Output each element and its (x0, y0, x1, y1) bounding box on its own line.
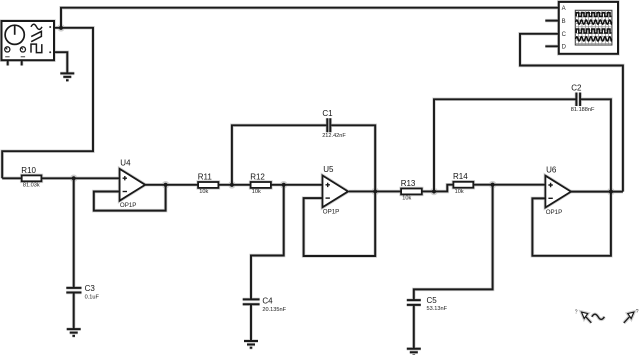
svg-text:C2: C2 (571, 84, 582, 93)
svg-text:53.13nF: 53.13nF (427, 306, 448, 312)
svg-text:?: ? (636, 309, 639, 315)
svg-text:U4: U4 (120, 159, 131, 168)
svg-text:0.1uF: 0.1uF (85, 294, 100, 300)
svg-text:C: C (562, 32, 567, 38)
svg-text:10k: 10k (402, 196, 411, 202)
svg-text:C4: C4 (262, 296, 273, 305)
svg-text:10k: 10k (252, 189, 261, 195)
svg-text:212.42nF: 212.42nF (322, 133, 346, 139)
svg-text:C1: C1 (322, 109, 333, 118)
svg-text:10k: 10k (199, 189, 208, 195)
svg-text:U6: U6 (546, 165, 557, 174)
svg-text:C3: C3 (85, 284, 96, 293)
svg-text:A: A (562, 6, 566, 12)
svg-text:OP1P: OP1P (120, 202, 137, 209)
svg-text:R11: R11 (198, 172, 213, 181)
svg-text:R12: R12 (250, 172, 265, 181)
svg-text:OP1P: OP1P (323, 209, 340, 216)
svg-text:B: B (562, 19, 566, 25)
svg-text:10k: 10k (455, 189, 464, 195)
svg-text:20.135nF: 20.135nF (262, 307, 286, 313)
svg-text:C5: C5 (427, 296, 438, 305)
svg-text:81.03k: 81.03k (23, 182, 40, 188)
svg-text:R10: R10 (21, 166, 36, 175)
svg-text:81.188nF: 81.188nF (571, 107, 595, 113)
svg-text:D: D (562, 45, 567, 51)
svg-text:R14: R14 (453, 172, 468, 181)
svg-text:R13: R13 (401, 179, 416, 188)
svg-text:OP1P: OP1P (546, 209, 563, 216)
svg-text:U5: U5 (323, 165, 334, 174)
svg-text:?: ? (575, 309, 578, 315)
